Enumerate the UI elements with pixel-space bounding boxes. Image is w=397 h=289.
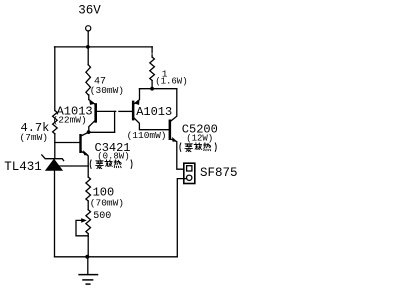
transistor Q4 C5200 collector lead bbox=[171, 89, 177, 121]
svg-text:(110mW): (110mW) bbox=[127, 130, 167, 141]
potentiometer 500 wiper arm bbox=[76, 220, 88, 235]
transistor Q2 collector lead bbox=[82, 132, 89, 135]
wire left branch upper bbox=[54, 47, 56, 111]
transistor Q1 collector lead bbox=[89, 121, 95, 132]
svg-text:(12W): (12W) bbox=[186, 134, 213, 144]
wire mid rail bbox=[140, 88, 177, 90]
diode TL431 cathode bar bbox=[42, 155, 64, 161]
wire top rail down to R47 bbox=[87, 47, 89, 65]
wire R1 to mid rail bbox=[151, 81, 153, 89]
transistor Q1 A1013 emitter lead bbox=[88, 95, 90, 100]
wire mirror tie horizontal bbox=[89, 131, 115, 133]
potentiometer 500 body bbox=[86, 210, 91, 234]
resistor R1 1ohm bbox=[150, 57, 155, 81]
transistor Q4 emitter lead bbox=[171, 139, 187, 169]
transistor Q2 emitter arrow (NPN out) bbox=[83, 150, 88, 155]
wire TL431 ref to emitter node bbox=[57, 165, 88, 167]
junction mid rail at R1 bbox=[150, 87, 154, 91]
node 36V supply terminal bbox=[86, 26, 91, 31]
wire top rail bbox=[55, 46, 153, 48]
transistor Q1 emitter arrow (PNP into bar) bbox=[89, 100, 94, 105]
connector SF875 body bbox=[184, 163, 195, 183]
svg-text:(30mW): (30mW) bbox=[90, 85, 124, 96]
svg-text:A1013: A1013 bbox=[136, 105, 172, 119]
transistor Q4 base bar bbox=[169, 120, 172, 141]
wire mirror tie vertical bbox=[114, 111, 116, 132]
wire 4.7k to TL431 bbox=[54, 134, 56, 159]
junction mirror input node bbox=[87, 130, 91, 134]
transistor Q3 A1013 emitter lead bbox=[135, 89, 140, 104]
wire gap to Q3 base bbox=[119, 110, 132, 112]
transistor Q3 emitter arrow (PNP into bar) bbox=[135, 100, 140, 105]
diode TL431 anode triangle bbox=[46, 159, 63, 170]
transistor Q1 base bar bbox=[94, 103, 97, 123]
svg-text:(7mW): (7mW) bbox=[20, 132, 49, 143]
label 要放热 (C5200) bbox=[180, 143, 216, 152]
svg-text:500: 500 bbox=[93, 211, 111, 222]
wire pot to ground rail bbox=[87, 234, 89, 257]
wire top rail down to R1 bbox=[151, 47, 153, 53]
transistor Q2 emitter lead bbox=[82, 151, 89, 177]
ground symbol bbox=[79, 257, 97, 284]
svg-text:(70mW): (70mW) bbox=[90, 197, 124, 208]
transistor Q3 collector lead bbox=[134, 118, 168, 129]
connector SF875 pin 2 circle bbox=[187, 175, 192, 180]
resistor 47 bbox=[86, 65, 91, 95]
svg-text:(0.8W): (0.8W) bbox=[97, 152, 129, 162]
svg-text:36V: 36V bbox=[78, 3, 101, 17]
wire ground rail bbox=[55, 256, 178, 258]
transistor Q4 emitter arrow (NPN out) bbox=[172, 137, 177, 142]
junction ground rail bbox=[85, 255, 89, 259]
junction top rail at 36V drop bbox=[86, 45, 90, 49]
transistor Q2 C3421 base bar bbox=[79, 134, 81, 153]
connector SF875 pin 1 square bbox=[187, 166, 192, 171]
wire R100 to pot bbox=[87, 201, 89, 210]
resistor 100 bbox=[86, 177, 91, 201]
svg-text:SF875: SF875 bbox=[200, 166, 238, 180]
wire 36V terminal to top rail bbox=[87, 31, 89, 47]
wire TL431 anode down to ground rail bbox=[54, 170, 56, 256]
svg-text:(22mW): (22mW) bbox=[53, 114, 87, 125]
resistor 4.7k bbox=[53, 111, 58, 134]
wire Q1 base to gap bbox=[97, 110, 116, 112]
potentiometer 500 wiper arrow bbox=[81, 218, 87, 223]
svg-text:(1.6W): (1.6W) bbox=[155, 77, 187, 87]
wire node to C3421 base bbox=[55, 142, 80, 144]
svg-text:TL431: TL431 bbox=[4, 160, 42, 174]
wire pin2 to ground rail bbox=[177, 179, 186, 257]
label 要放热 (C3421) bbox=[90, 160, 132, 169]
transistor Q3 base bar bbox=[132, 101, 135, 121]
